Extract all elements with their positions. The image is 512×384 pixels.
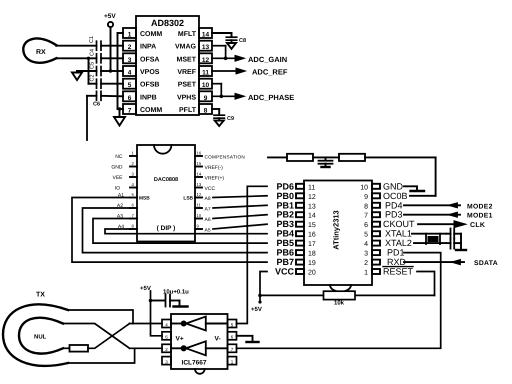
svg-text:12: 12	[202, 57, 210, 64]
op-amp U1 AD8302 body	[136, 16, 199, 115]
wire +5V rail ICL	[151, 291, 163, 336]
svg-text:MODE1: MODE1	[467, 213, 493, 220]
power +5V node AD8302	[108, 22, 113, 71]
node junction VPHS	[220, 95, 224, 99]
capacitor filter	[319, 157, 333, 166]
capacitor bypass 10u+0.1u	[151, 295, 180, 307]
svg-text:LSB: LSB	[183, 196, 193, 202]
pin box ICL right 4	[228, 357, 237, 365]
svg-text:ADC_PHASE: ADC_PHASE	[248, 93, 294, 102]
wire PD4 to MODE2	[404, 204, 460, 206]
pin 7 PD3	[364, 210, 402, 220]
svg-text:3: 3	[128, 57, 132, 64]
svg-text:11: 11	[308, 184, 315, 191]
wire A2 loop to PB6	[83, 208, 268, 253]
wire RXD to SDATA	[404, 261, 464, 263]
node junction VCC resistor	[258, 294, 262, 298]
label C2	[90, 74, 96, 81]
svg-text:3: 3	[364, 251, 368, 258]
capacitor C1	[97, 41, 124, 50]
svg-text:GND: GND	[111, 165, 123, 171]
wire MSET to ADC_GAIN arrow	[212, 57, 235, 59]
svg-text:11: 11	[197, 203, 202, 208]
wire RX top to C1	[56, 45, 97, 47]
svg-text:PD3: PD3	[385, 210, 403, 220]
wire NUL bottom crossover	[88, 324, 130, 349]
capacitor C2	[89, 79, 124, 88]
arrow ADC_REF	[236, 68, 246, 74]
wire MFLT to C8	[212, 33, 232, 37]
svg-text:PB3: PB3	[276, 219, 294, 229]
wire A1 loop to PB7	[72, 198, 267, 263]
label V-	[215, 336, 221, 343]
wire C6 stub down	[86, 96, 88, 140]
svg-text:+5V: +5V	[104, 13, 116, 20]
pin 11 VREF	[177, 66, 212, 77]
pin 9 OC0B	[364, 191, 407, 201]
svg-text:ICL7667: ICL7667	[182, 360, 207, 367]
pin 2 INPA	[123, 41, 156, 52]
pin 20 VCC	[275, 267, 316, 277]
svg-text:COMM: COMM	[140, 107, 162, 114]
label RX	[36, 49, 46, 56]
pin 4 XTAL2	[364, 238, 412, 248]
pin 6 CKOUT	[364, 219, 415, 229]
svg-text:VREF(+): VREF(+)	[205, 176, 225, 182]
svg-text:9: 9	[364, 194, 368, 201]
pin 2 GND	[111, 161, 137, 171]
wire COMM rail pin1 to pin7	[118, 33, 124, 109]
svg-text:14: 14	[197, 172, 202, 177]
pin 3 PD1	[364, 248, 404, 258]
capacitor C5	[77, 67, 111, 76]
svg-text:PB6: PB6	[276, 248, 294, 258]
svg-text:OFSB: OFSB	[140, 82, 159, 89]
arrow CLK	[454, 221, 466, 228]
svg-text:C9: C9	[227, 116, 234, 122]
capacitor C8	[226, 37, 236, 43]
ground symbol bypass	[174, 301, 188, 307]
resistor R1 10k	[324, 291, 356, 299]
svg-text:VREF(-): VREF(-)	[205, 165, 224, 171]
label ATtiny2313	[332, 210, 341, 249]
svg-text:A6: A6	[205, 217, 211, 223]
label MODE1	[467, 213, 493, 220]
svg-text:VREF: VREF	[177, 69, 196, 76]
node junction VPOS	[109, 69, 112, 72]
wire VMAG jog	[212, 46, 226, 59]
svg-text:10u+0.1u: 10u+0.1u	[163, 289, 189, 296]
pin 3 OFSA	[123, 53, 159, 64]
node junction bypass cap	[149, 299, 153, 303]
label DAC0808	[154, 177, 178, 183]
label ADC_GAIN	[248, 55, 287, 64]
capacitor crystal top	[446, 229, 461, 239]
svg-text:4: 4	[364, 241, 368, 248]
svg-text:10: 10	[360, 184, 368, 191]
pin 14 MFLT	[178, 28, 212, 39]
wire XTAL2	[414, 242, 446, 244]
wire A7 to PB1	[213, 205, 267, 208]
wire VREF to ADC_REF arrow	[212, 70, 236, 72]
arrow MODE1	[448, 212, 458, 217]
resistor R2 filter	[287, 154, 313, 161]
ground symbol GND pin10	[404, 186, 424, 191]
pin 19 PB7	[276, 257, 315, 267]
pin 9 A5	[195, 224, 211, 234]
svg-text:VEE: VEE	[112, 175, 123, 181]
ground symbol ICL right pin2	[237, 336, 259, 342]
arrow ADC_GAIN	[235, 55, 245, 61]
capacitor C6	[87, 91, 123, 100]
svg-text:PSET: PSET	[178, 82, 197, 89]
svg-text:ADC_GAIN: ADC_GAIN	[248, 55, 287, 64]
svg-text:A7: A7	[205, 207, 211, 213]
pin 11 PD6	[276, 181, 315, 191]
svg-text:NC: NC	[115, 154, 123, 160]
wire A5 to PB3	[213, 224, 267, 229]
label C4	[90, 49, 96, 56]
inverter gate A ICL	[171, 317, 228, 331]
svg-text:9: 9	[204, 95, 208, 102]
svg-text:16: 16	[197, 151, 202, 156]
label C6	[93, 102, 100, 108]
wire PD3 to MODE1	[404, 214, 460, 216]
wire TX outer bottom	[68, 348, 135, 363]
svg-text:8: 8	[364, 203, 368, 210]
svg-text:17: 17	[308, 241, 316, 248]
label C8	[239, 38, 246, 44]
svg-text:4: 4	[128, 70, 132, 77]
wire A8 to PB0	[213, 196, 267, 198]
svg-text:A8: A8	[205, 196, 211, 202]
label C5	[90, 62, 96, 69]
wire PFLT to C9	[212, 109, 219, 115]
wire crossover to ICL pin3	[130, 347, 162, 349]
wire rail caps bank	[88, 58, 90, 83]
pin 6 A2	[117, 203, 137, 210]
pin 12 PB0	[276, 191, 315, 201]
svg-text:MSET: MSET	[177, 56, 197, 63]
label MODE2	[467, 203, 493, 210]
ground arrow under C9	[215, 121, 224, 126]
wire filter output to OC0B	[365, 157, 436, 195]
pin 4 VPOS	[123, 66, 160, 77]
svg-text:5: 5	[364, 232, 368, 239]
svg-text:ATtiny2313: ATtiny2313	[332, 210, 341, 249]
svg-text:VPHS: VPHS	[177, 94, 196, 101]
node junction COMM	[118, 107, 121, 110]
pin 13 VCC	[195, 182, 215, 192]
pin 10 A6	[195, 213, 211, 223]
svg-text:1: 1	[364, 270, 368, 277]
capacitor C9	[214, 115, 224, 120]
svg-text:5: 5	[128, 82, 132, 89]
wire NUL top crossover	[63, 324, 130, 349]
svg-text:6: 6	[364, 222, 368, 229]
pin 2 RXD	[364, 257, 406, 267]
driver U4 ICL7667 body	[171, 314, 228, 374]
wire resistor rail	[260, 294, 435, 296]
svg-text:RX: RX	[36, 49, 46, 56]
svg-text:13: 13	[197, 182, 202, 187]
wire A4 loop to PB4	[105, 229, 267, 234]
svg-text:C4: C4	[90, 49, 96, 56]
svg-text:OFSA: OFSA	[140, 56, 159, 63]
svg-text:2: 2	[128, 44, 132, 51]
svg-text:PFLT: PFLT	[179, 107, 197, 114]
label C9	[227, 116, 234, 122]
svg-text:VCC: VCC	[205, 186, 216, 192]
pin 5 XTAL1	[364, 229, 412, 239]
pin 9 VPHS	[177, 91, 212, 102]
svg-text:AD8302: AD8302	[151, 18, 184, 28]
svg-text:PD1: PD1	[387, 248, 405, 258]
svg-text:1: 1	[128, 32, 132, 39]
pin 12 A8	[195, 192, 211, 202]
svg-text:GND: GND	[383, 181, 404, 191]
wire A3 loop to PB5	[93, 219, 267, 244]
wire crossover to ICL pin1	[130, 323, 162, 325]
pin 1 RESET	[364, 267, 413, 277]
ground symbol crystal	[456, 234, 466, 250]
svg-text:RESET: RESET	[383, 267, 414, 277]
svg-text:COMPENSATION: COMPENSATION	[205, 155, 246, 160]
pin 4 IO	[115, 182, 137, 192]
svg-text:16: 16	[308, 232, 316, 239]
svg-text:C8: C8	[239, 38, 246, 44]
pin 13 PB1	[276, 200, 315, 210]
label C1	[89, 36, 95, 43]
pin 15 VREF-	[195, 161, 223, 171]
label 10k	[334, 300, 345, 307]
label V+	[176, 336, 184, 343]
wire VCC rail	[260, 272, 267, 303]
pin 13 VMAG	[175, 41, 212, 52]
svg-text:CKOUT: CKOUT	[383, 219, 415, 229]
label +5V	[104, 13, 116, 20]
svg-text:CLK: CLK	[470, 222, 485, 229]
pin box ICL right 1	[228, 320, 237, 328]
pin 7 COMM	[123, 104, 162, 115]
svg-text:+5V: +5V	[140, 285, 151, 292]
resistor R4 NUL	[63, 345, 88, 352]
crystal X1	[426, 234, 440, 244]
wire VPHS to ADC_PHASE arrow	[212, 95, 235, 97]
inverter gate B ICL	[171, 341, 228, 355]
inductor RX receive coil	[23, 39, 56, 63]
svg-text:12: 12	[197, 192, 202, 197]
pin 3 VEE	[112, 172, 137, 182]
svg-text:11: 11	[202, 70, 209, 77]
svg-text:7: 7	[364, 213, 368, 220]
pin 15 PB3	[276, 219, 315, 229]
label ADC_REF	[252, 68, 288, 77]
label SDATA	[474, 260, 498, 267]
inductor NUL coil inner	[19, 318, 63, 354]
wire filter middle	[313, 156, 339, 158]
svg-text:DAC0808: DAC0808	[154, 177, 178, 183]
pin 5 OFSB	[123, 79, 159, 90]
svg-text:19: 19	[308, 260, 316, 267]
svg-text:13: 13	[308, 203, 316, 210]
svg-text:2: 2	[364, 260, 368, 267]
svg-text:V+: V+	[176, 336, 184, 343]
svg-text:INPA: INPA	[140, 44, 156, 51]
wire CKOUT to CLK	[418, 223, 455, 225]
label TX	[36, 292, 45, 299]
pin 1 COMM	[123, 28, 162, 39]
svg-text:+5V: +5V	[251, 306, 262, 313]
svg-text:TX: TX	[36, 292, 45, 299]
ground bar under filter cap	[322, 166, 330, 168]
svg-text:C1: C1	[89, 36, 95, 43]
pin 14 VREF+	[195, 172, 224, 182]
svg-text:14: 14	[308, 213, 316, 220]
pin box ICL left 1	[162, 320, 171, 328]
svg-text:C5: C5	[90, 62, 96, 69]
pin 1 NC	[115, 151, 137, 161]
svg-text:VCC: VCC	[275, 267, 295, 277]
capacitor crystal bottom	[446, 238, 461, 248]
resistor R3 filter	[339, 154, 365, 161]
label MSB	[139, 196, 150, 202]
wire +5V to pin4	[111, 70, 124, 72]
wire TX outer top	[68, 310, 133, 324]
svg-text:SDATA: SDATA	[474, 260, 498, 267]
pin 6 INPB	[123, 91, 157, 102]
wire PSET jog	[212, 84, 221, 97]
svg-text:PB0: PB0	[276, 191, 294, 201]
label +5V AVR	[251, 306, 262, 313]
svg-text:15: 15	[197, 161, 202, 166]
pin 10 PSET	[178, 79, 212, 90]
pin 10 GND	[360, 181, 403, 191]
svg-text:PB2: PB2	[276, 210, 294, 220]
pin 17 PB5	[276, 238, 315, 248]
svg-text:COMM: COMM	[140, 31, 162, 38]
pin 11 A7	[195, 203, 211, 213]
svg-text:MODE2: MODE2	[467, 203, 493, 210]
inductor TX transmit coil outer	[3, 304, 68, 365]
pin 8 A4	[118, 224, 137, 231]
label LSB	[183, 196, 193, 202]
node junction MSET	[224, 57, 228, 61]
pin 12 MSET	[177, 53, 212, 64]
svg-text:7: 7	[128, 108, 132, 115]
svg-text:C2: C2	[90, 74, 96, 81]
svg-text:C6: C6	[93, 102, 100, 108]
pin 7 A3	[117, 213, 137, 220]
pin 8 PFLT	[179, 104, 212, 115]
svg-text:PD6: PD6	[276, 181, 294, 191]
wire RX bottom to C4	[56, 57, 97, 59]
ground arrow left of caps	[72, 71, 82, 80]
ground arrow below AD8302	[114, 109, 125, 126]
label AD8302	[151, 18, 184, 28]
label CLK	[470, 222, 485, 229]
label +5V ICL	[140, 285, 151, 292]
wire RESET to resistor	[417, 272, 435, 296]
pin box ICL right 3	[228, 344, 237, 352]
svg-text:18: 18	[308, 251, 316, 258]
label ADC_PHASE	[248, 93, 294, 102]
label NUL	[34, 334, 47, 341]
svg-text:10k: 10k	[334, 300, 345, 307]
svg-text:VPOS: VPOS	[140, 69, 160, 76]
label ICL7667	[182, 360, 207, 367]
wire PD6 to ICL pin	[237, 186, 268, 323]
arrow SDATA	[451, 259, 461, 264]
label 10u+0.1u	[163, 289, 189, 296]
pin 16 PB4	[276, 229, 315, 239]
node dot +5V	[258, 300, 261, 303]
pin box ICL left 2	[162, 332, 171, 340]
ground arrow under C8	[227, 43, 236, 49]
arrow ADC_PHASE	[235, 93, 245, 99]
svg-text:( DIP ): ( DIP )	[157, 225, 176, 232]
wire A6 to PB2	[213, 215, 267, 219]
pin box ICL left 4	[162, 357, 171, 365]
svg-text:INPB: INPB	[140, 94, 157, 101]
svg-text:A5: A5	[205, 228, 211, 234]
wire XTAL1	[412, 233, 446, 235]
wire PD1 down to ICL	[237, 253, 441, 349]
MCU U3 ATtiny2313 body	[304, 181, 372, 292]
svg-text:XTAL2: XTAL2	[385, 238, 412, 248]
pin 16 COMPENSATION	[195, 151, 245, 160]
svg-text:15: 15	[308, 222, 316, 229]
svg-text:IO: IO	[115, 186, 120, 192]
pin box ICL right 2	[228, 332, 237, 340]
svg-text:MFLT: MFLT	[178, 31, 197, 38]
svg-text:20: 20	[308, 270, 316, 277]
svg-text:OC0B: OC0B	[383, 191, 408, 201]
pin 8 PD4	[364, 200, 402, 210]
svg-text:V-: V-	[215, 336, 221, 343]
svg-text:12: 12	[308, 194, 316, 201]
pin box ICL left 3	[162, 344, 171, 352]
arrow MODE2	[448, 203, 458, 208]
DAC U2 DAC0808 body	[137, 145, 195, 242]
svg-text:VMAG: VMAG	[175, 44, 197, 51]
svg-text:8: 8	[204, 108, 208, 115]
svg-text:10: 10	[202, 82, 210, 89]
pin 5 A1	[118, 192, 137, 199]
svg-text:6: 6	[128, 95, 132, 102]
pin 18 PB6	[276, 248, 315, 258]
svg-text:10: 10	[197, 213, 202, 218]
wire filter input	[268, 156, 287, 158]
svg-text:13: 13	[202, 44, 210, 51]
pin 14 PB2	[276, 210, 315, 220]
svg-text:ADC_REF: ADC_REF	[252, 68, 288, 77]
node junction on OFSA wire	[87, 57, 90, 60]
label DIP	[157, 225, 176, 232]
svg-text:14: 14	[202, 32, 210, 39]
capacitor C4	[97, 54, 124, 63]
svg-text:NUL: NUL	[34, 334, 47, 341]
svg-text:MSB: MSB	[139, 196, 150, 202]
svg-text:PB5: PB5	[276, 238, 294, 248]
